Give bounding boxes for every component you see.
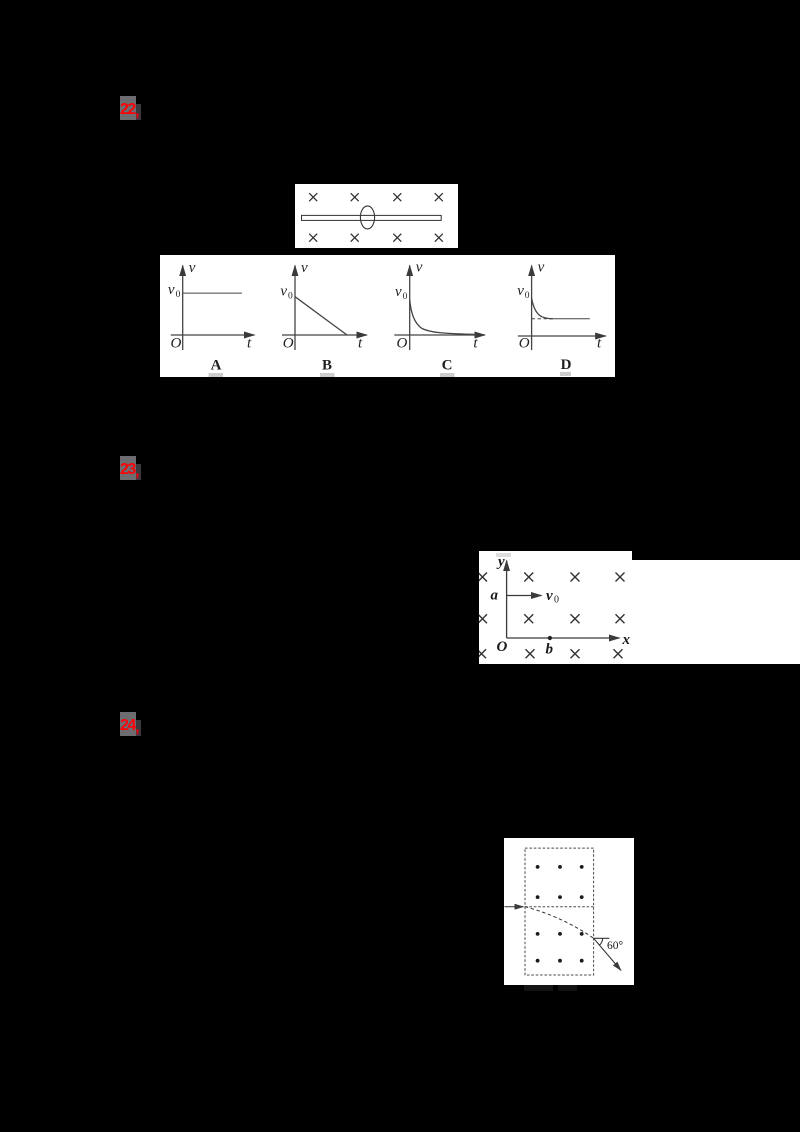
svg-text:v: v bbox=[546, 588, 553, 604]
svg-text:v: v bbox=[168, 282, 175, 298]
svg-text:v: v bbox=[416, 260, 423, 276]
svg-text:b: b bbox=[546, 642, 554, 658]
svg-text:0: 0 bbox=[176, 290, 181, 300]
svg-text:v: v bbox=[538, 260, 545, 276]
svg-text:v: v bbox=[395, 284, 402, 300]
svg-text:v: v bbox=[517, 283, 524, 299]
svg-text:O: O bbox=[283, 336, 294, 352]
svg-text:A: A bbox=[211, 358, 222, 374]
svg-text:x: x bbox=[622, 632, 631, 648]
svg-text:0: 0 bbox=[525, 291, 530, 301]
svg-text:B: B bbox=[322, 358, 332, 374]
svg-text:0: 0 bbox=[554, 595, 559, 606]
svg-text:D: D bbox=[561, 357, 572, 373]
svg-text:O: O bbox=[171, 336, 182, 352]
svg-text:v: v bbox=[280, 284, 287, 300]
svg-text:0: 0 bbox=[403, 292, 408, 302]
svg-text:v: v bbox=[301, 260, 308, 276]
svg-text:O: O bbox=[519, 335, 530, 351]
svg-text:0: 0 bbox=[288, 292, 293, 302]
svg-text:y: y bbox=[496, 554, 505, 570]
svg-text:a: a bbox=[491, 588, 499, 604]
svg-text:O: O bbox=[397, 336, 408, 352]
svg-text:v: v bbox=[189, 260, 196, 276]
svg-text:O: O bbox=[497, 639, 508, 655]
svg-text:C: C bbox=[442, 358, 453, 374]
svg-text:60°: 60° bbox=[607, 940, 624, 952]
